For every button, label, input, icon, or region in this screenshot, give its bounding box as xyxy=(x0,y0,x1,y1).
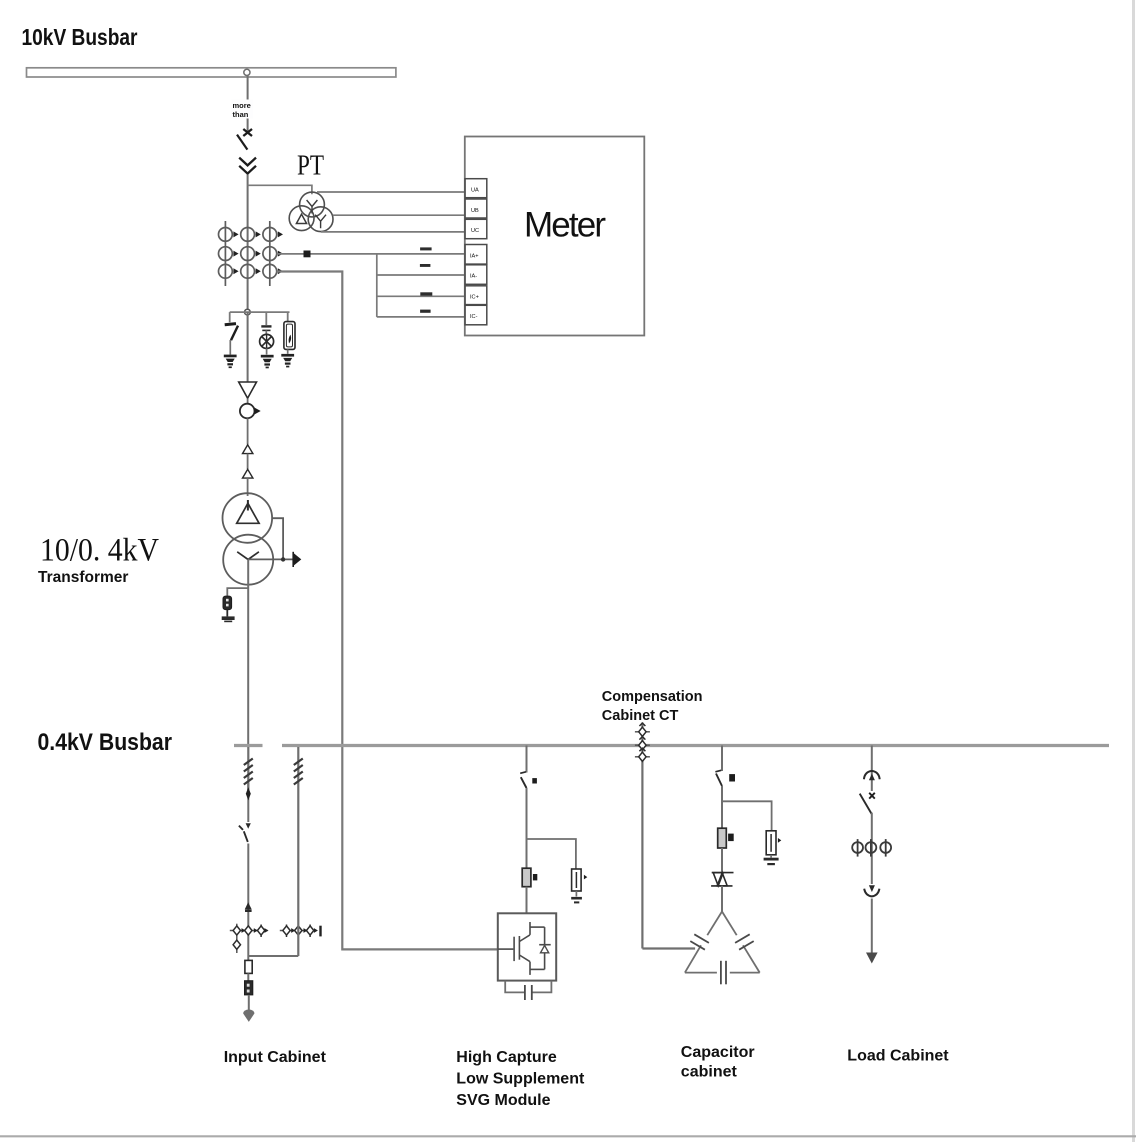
svg-text:IC-: IC- xyxy=(470,314,478,320)
terminal IA+ xyxy=(465,245,487,265)
CT assembly 3x3 xyxy=(219,221,277,286)
CT row arrows xyxy=(233,231,283,274)
capacitor branch arrester xyxy=(766,831,781,858)
label Load Cabinet xyxy=(847,1048,949,1065)
label PT xyxy=(297,150,324,182)
indicator lamp xyxy=(260,326,274,354)
disconnect switch QS xyxy=(237,135,247,150)
node junction J1 xyxy=(245,309,251,315)
terminal UC xyxy=(465,219,487,238)
label 0.4kV Busbar xyxy=(38,729,173,756)
compensation wire to capacitor bank xyxy=(642,947,695,949)
terminal IC+ xyxy=(465,286,487,305)
PT transformer symbol xyxy=(289,192,333,232)
circle device with arrow xyxy=(240,399,261,445)
svg-text:Cabinet CT: Cabinet CT xyxy=(602,708,679,724)
terminal IC- xyxy=(465,305,487,325)
svg-text:0.4kV Busbar: 0.4kV Busbar xyxy=(38,729,173,756)
open triangle down xyxy=(239,382,257,398)
transformer secondary tap xyxy=(248,518,293,561)
ground left xyxy=(224,355,237,369)
meter rung IC- xyxy=(377,316,465,318)
capacitor delta right side xyxy=(722,912,760,973)
meter ladder rail xyxy=(376,254,378,317)
terminal UA xyxy=(465,179,487,198)
breaker x-mark xyxy=(243,129,252,136)
svg feeder wire xyxy=(526,746,528,773)
wire aux branch header xyxy=(230,312,290,325)
terminal IA- xyxy=(465,265,487,285)
polarity dash 1 xyxy=(420,247,432,250)
svg-text:High Capture: High Capture xyxy=(456,1049,557,1066)
svg-text:Meter: Meter xyxy=(524,206,606,245)
svg-text:IA-: IA- xyxy=(470,274,477,280)
label more than xyxy=(232,100,254,120)
svg-text:PT: PT xyxy=(297,150,324,182)
input CT row right xyxy=(280,925,322,938)
wire to load arrow xyxy=(871,899,873,953)
label Compensation Cabinet CT xyxy=(602,689,703,724)
capacitor delta bottom side xyxy=(685,961,760,985)
capacitor feeder wire xyxy=(721,746,723,772)
inductor coil B xyxy=(294,759,303,785)
label Transformer xyxy=(38,569,128,586)
wire joining feeders xyxy=(248,955,298,957)
wire fuse to triac xyxy=(721,848,723,872)
tee wire to arrester branch xyxy=(527,839,576,869)
load x-mark xyxy=(869,793,875,799)
transformer T1 xyxy=(223,493,274,585)
capacitor branch ground xyxy=(764,858,779,866)
compensation CT diamond 3 xyxy=(635,748,650,761)
svg-text:UC: UC xyxy=(471,228,479,234)
terminal UB xyxy=(465,199,487,218)
load switch xyxy=(860,794,872,814)
earthing switch xyxy=(225,324,238,355)
svg-text:10/0. 4kV: 10/0. 4kV xyxy=(40,533,159,569)
wire fuse to module xyxy=(526,887,528,913)
SVG module box xyxy=(498,913,556,980)
svg-text:more: more xyxy=(233,101,251,110)
input ground arrow xyxy=(243,1010,254,1022)
load CT circles xyxy=(852,839,891,857)
wire between triangles xyxy=(247,454,249,469)
polarity dash 3 xyxy=(420,292,432,295)
NGR resistor xyxy=(223,596,232,616)
input feeder wire A xyxy=(247,747,249,790)
wire switch to CT xyxy=(247,175,249,311)
meter rung IA- xyxy=(377,274,465,276)
module capacitor xyxy=(505,981,551,1000)
svg feeder switch xyxy=(520,772,537,788)
tee wire to arrester branch xyxy=(722,801,772,831)
wire switch to CTs xyxy=(871,813,873,884)
inductor coil A xyxy=(244,759,253,785)
svg-text:Low Supplement: Low Supplement xyxy=(456,1071,585,1088)
svg-text:Compensation: Compensation xyxy=(602,689,703,705)
wire tap to PT xyxy=(248,185,312,194)
node on 10kV busbar xyxy=(244,69,250,75)
NGR earth bar xyxy=(222,616,235,622)
wire switch to tee xyxy=(721,786,723,828)
label High Capture xyxy=(456,1049,557,1066)
compensation CT wire xyxy=(641,723,643,949)
input feeder wire B xyxy=(297,747,299,956)
polarity dash 4 xyxy=(420,310,431,313)
svg-text:10kV Busbar: 10kV Busbar xyxy=(22,24,138,50)
svg-text:UA: UA xyxy=(471,188,479,194)
svg-text:Input Cabinet: Input Cabinet xyxy=(224,1049,327,1066)
capacitor fuse xyxy=(718,828,734,848)
wire PT-B to meter xyxy=(333,214,465,216)
compensation CT diamond 1 xyxy=(635,723,650,736)
small up triangle 2 xyxy=(243,469,253,478)
meter box xyxy=(465,137,645,336)
label 10kV Busbar xyxy=(22,24,138,50)
label Capacitor cabinet xyxy=(681,1044,755,1081)
NGR branch wire xyxy=(227,588,248,596)
svg-text:Load Cabinet: Load Cabinet xyxy=(847,1048,949,1065)
input switch QA xyxy=(239,823,251,842)
wire PT-A to meter xyxy=(317,191,465,193)
wire J1 to triangle xyxy=(247,312,249,382)
compensation CT diamond 2 xyxy=(635,737,650,750)
wire CT row3 down to SVG module xyxy=(277,272,498,950)
ground right xyxy=(281,354,294,368)
load feeder wire xyxy=(871,746,873,792)
surge arrester xyxy=(284,322,295,354)
ground mid xyxy=(261,355,274,369)
wire to input ground xyxy=(248,995,250,1013)
0.4kV busbar W2 xyxy=(282,744,1109,747)
page border bottom xyxy=(0,1135,1136,1137)
input fuse F1 xyxy=(245,956,252,973)
svg-text:Transformer: Transformer xyxy=(38,569,128,586)
wire transformer down xyxy=(247,559,249,744)
load drawout arc up xyxy=(864,771,880,780)
wire CT row2 to meter xyxy=(277,251,465,258)
polarity dash 2 xyxy=(420,264,431,267)
svg fuse xyxy=(522,868,537,887)
page border right xyxy=(1132,0,1135,1142)
svg-text:SVG Module: SVG Module xyxy=(456,1092,550,1109)
drawout chevrons xyxy=(239,158,256,174)
wire triac to delta xyxy=(721,886,723,912)
load drawout arc down xyxy=(864,885,879,896)
label Low Supplement xyxy=(456,1071,585,1088)
10kV busbar W1 xyxy=(27,68,396,77)
triac symbol xyxy=(711,873,733,886)
IGBT symbol xyxy=(498,922,545,975)
wire busbar to switch xyxy=(247,76,249,132)
label SVG Module xyxy=(456,1092,550,1109)
svg-text:IA+: IA+ xyxy=(470,253,479,259)
svg-text:IC+: IC+ xyxy=(470,294,479,300)
svg-text:UB: UB xyxy=(471,208,479,214)
fuse mark A xyxy=(246,783,251,822)
meter rung IC+ xyxy=(377,295,465,297)
small up triangle 1 xyxy=(243,445,253,454)
svg-text:cabinet: cabinet xyxy=(681,1064,738,1081)
wire switch to tee xyxy=(526,788,528,868)
load end arrow xyxy=(866,953,878,964)
input fuse F2 xyxy=(245,973,253,995)
0.4kV busbar left stub xyxy=(234,744,263,747)
secondary arrow xyxy=(293,552,301,567)
input CT row left xyxy=(230,924,269,953)
label Input Cabinet xyxy=(224,1049,327,1066)
capacitor feeder switch xyxy=(715,770,735,786)
capacitor delta left side xyxy=(685,912,722,973)
svg-text:Capacitor: Capacitor xyxy=(681,1044,755,1061)
IGBT diode xyxy=(539,945,551,953)
svg-text:than: than xyxy=(233,110,249,119)
wire to transformer xyxy=(247,478,249,496)
label 10/0.4kV xyxy=(40,533,159,569)
wire switch to CT row xyxy=(247,844,249,957)
wire PT-C to meter xyxy=(321,231,465,233)
svg branch ground xyxy=(571,897,582,904)
svg branch arrester xyxy=(572,869,588,897)
up arrow mark xyxy=(245,902,252,912)
